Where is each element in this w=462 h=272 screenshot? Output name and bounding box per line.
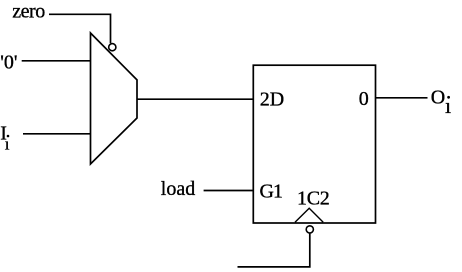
subscript i of Ii (dot) <box>7 135 10 138</box>
svg-text:load: load <box>161 178 195 200</box>
wire: load input <box>204 190 254 192</box>
svg-text:zero: zero <box>12 0 45 22</box>
subscript i of Oi (dot) <box>447 96 450 99</box>
svg-text:2D: 2D <box>260 88 284 110</box>
multiplexer MUX (trapezoid) <box>91 33 138 164</box>
wire: clock (down then left) <box>238 233 310 267</box>
wire: '0' input <box>22 60 91 62</box>
wire: zero select (right then down) <box>49 14 111 43</box>
inverter bubble on mux select <box>109 44 116 51</box>
wire: Ii input <box>23 133 91 135</box>
register (D flip-flop) box <box>253 65 375 223</box>
svg-text:1C2: 1C2 <box>297 187 329 209</box>
svg-text:ı: ı <box>5 134 10 153</box>
wire: register output to Oi <box>376 97 428 99</box>
svg-text:0: 0 <box>359 88 369 110</box>
svg-text:'0': '0' <box>0 51 17 73</box>
clock inverter bubble <box>306 226 313 233</box>
clock dynamic-edge triangle on bottom of register <box>295 208 323 222</box>
svg-text:G1: G1 <box>260 180 282 202</box>
svg-text:O: O <box>431 87 445 109</box>
wire: mux output to register 2D <box>137 98 253 100</box>
